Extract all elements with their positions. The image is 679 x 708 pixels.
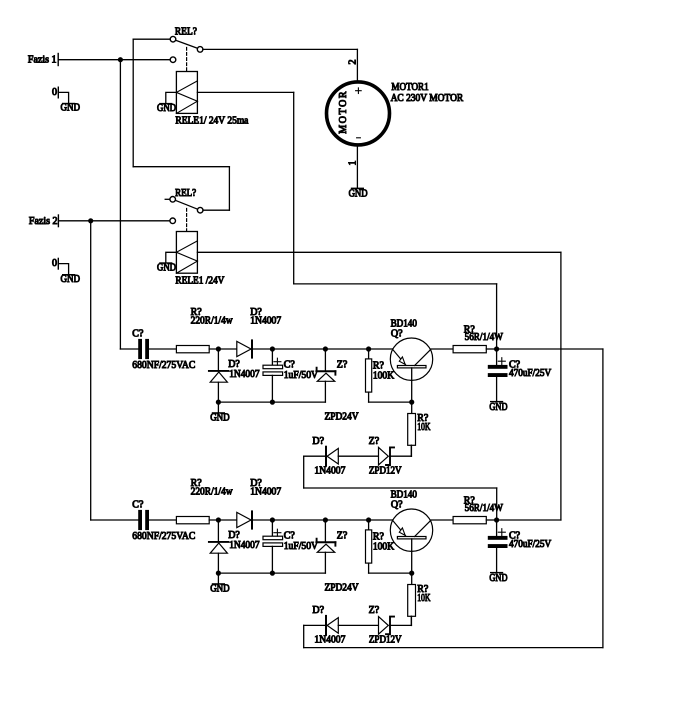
- zener Z? ZPD24V (block 1): [317, 349, 336, 402]
- pin 1 (motor bottom): [348, 161, 359, 166]
- wire zener to 10K (block 2): [390, 616, 411, 625]
- junction ground rail cap (block 2): [270, 571, 275, 576]
- svg-text:D?: D?: [312, 436, 324, 447]
- junction ground rail left (block 2): [216, 571, 221, 576]
- svg-text:1N4007: 1N4007: [314, 635, 345, 646]
- label D? (feedback diode, block 2): [312, 605, 324, 616]
- svg-text:220R/1/4w: 220R/1/4w: [191, 487, 234, 498]
- wire across to relay2 switch: [133, 166, 229, 168]
- svg-text:0: 0: [52, 258, 57, 269]
- wire cap to resistor (block 2): [149, 519, 176, 521]
- value label 1N4007 (shunt diode, block 1): [229, 369, 259, 380]
- value label 1N4007 (series diode, block 1): [250, 316, 281, 327]
- resistor R? 10K (block 1): [408, 402, 416, 456]
- svg-text:ZPD12V: ZPD12V: [369, 466, 402, 477]
- wire rail (block 1): [272, 348, 392, 350]
- svg-text:GND: GND: [157, 103, 176, 114]
- value label 10K (block 1): [417, 422, 431, 433]
- svg-text:RELE1/ 24V 25ma: RELE1/ 24V 25ma: [175, 115, 249, 126]
- wire block1 output to lower loop: [304, 349, 603, 648]
- junction resistor-diode node (block 2): [216, 517, 221, 522]
- wire rail (block 2): [272, 519, 392, 521]
- svg-text:GND: GND: [157, 262, 176, 273]
- ground GND (relay 1): [157, 103, 176, 114]
- resistor R? 10K (block 2): [408, 573, 416, 625]
- wire resistor to diode (block 2): [209, 519, 237, 521]
- power port 0 (upper): [52, 87, 58, 98]
- label C? (680NF cap, block 1): [132, 328, 144, 339]
- label Q? (block 2): [391, 500, 403, 511]
- wire Fazis 1 to relay contact: [58, 59, 170, 61]
- value label 680NF/275VAC (block 1): [132, 360, 195, 371]
- pin 2 (motor top): [347, 60, 358, 65]
- junction Fazis 1: [118, 57, 123, 62]
- svg-text:MOTOR1: MOTOR1: [391, 82, 428, 93]
- capacitor C? 470uF/25V (block 1): [488, 349, 508, 401]
- label R? (10K, block 1): [417, 413, 429, 424]
- label Z? (ZPD24V, block 2): [337, 530, 348, 541]
- label BD140 (block 2): [391, 490, 417, 501]
- svg-text:Fazis 2: Fazis 2: [29, 216, 58, 227]
- motor MOTOR1 AC 230V MOTOR: [327, 82, 390, 145]
- svg-text:GND: GND: [210, 584, 230, 595]
- zener Z? ZPD12V (block 1): [379, 447, 395, 465]
- label R? (100K, block 2): [373, 532, 385, 543]
- svg-text:10K: 10K: [417, 593, 431, 604]
- svg-text:C?: C?: [132, 328, 144, 339]
- junction diode output node (block 2): [270, 517, 275, 522]
- resistor R? 100K (block 2): [366, 520, 412, 573]
- junction output node (block 1): [494, 346, 499, 351]
- ground GND (lower left): [61, 274, 81, 285]
- svg-text:1uF/50V: 1uF/50V: [284, 541, 319, 552]
- wire resistor to output node (block 2): [486, 519, 496, 521]
- ground GND (motor): [349, 188, 368, 199]
- capacitor C? 680NF/275VAC (block 2): [138, 510, 149, 530]
- value label 470uF/25V (block 2): [509, 539, 552, 550]
- svg-text:220R/1/4w: 220R/1/4w: [191, 316, 234, 327]
- wire collector to output resistor (block 1): [431, 348, 453, 350]
- wire zener network left (block 1): [304, 456, 325, 488]
- wire resistor to diode (block 1): [209, 348, 237, 350]
- diode D? 1N4007 series (block 2): [237, 511, 252, 528]
- value label ZPD12V (block 1): [369, 466, 402, 477]
- transistor Q? BD140 (block 1): [390, 338, 432, 402]
- label C? (470uF cap, block 1): [509, 360, 521, 371]
- wire to ground (block 1): [217, 402, 219, 413]
- resistor R? 220R/1/4w (block 1): [176, 346, 209, 353]
- wire block1 zener network to block2 output: [304, 488, 497, 520]
- junction diode output node (block 1): [270, 346, 275, 351]
- wire relay1 coil to GND: [166, 92, 177, 103]
- svg-text:1N4007: 1N4007: [229, 540, 259, 551]
- value label 1N4007 (shunt diode, block 2): [229, 540, 259, 551]
- svg-text:ZPD24V: ZPD24V: [325, 582, 360, 593]
- value label RELE1 /24V: [175, 275, 225, 286]
- label R? (56R, block 2): [464, 496, 476, 507]
- wire 0 to GND (upper): [58, 92, 68, 103]
- value label ZPD24V (block 1): [325, 411, 360, 422]
- junction base node (block 1): [409, 400, 414, 405]
- svg-text:56R/1/4W: 56R/1/4W: [465, 503, 504, 514]
- capacitor C? 1uF/50V (block 1): [263, 349, 283, 402]
- value label 1uF/50V (block 1): [284, 370, 319, 381]
- svg-text:Z?: Z?: [337, 530, 348, 541]
- ground GND (block 1): [210, 413, 230, 424]
- value label RELE1/ 24V 25ma: [175, 115, 249, 126]
- ground GND (upper left): [61, 103, 81, 114]
- value label 100K (block 1): [373, 371, 395, 382]
- wire resistor to output node (block 1): [486, 348, 496, 350]
- svg-text:1uF/50V: 1uF/50V: [284, 370, 319, 381]
- wire relay1 coil feed: [197, 92, 496, 349]
- svg-text:REL?: REL?: [175, 26, 198, 37]
- junction Fazis 2: [88, 218, 93, 223]
- wire zener network left (block 2): [304, 625, 325, 647]
- ground GND (470uF cap, block 1): [489, 402, 507, 413]
- diode D? 1N4007 feedback (block 2): [326, 616, 338, 635]
- diode D? 1N4007 feedback (block 1): [326, 447, 338, 466]
- junction zener node (block 2): [323, 517, 328, 522]
- junction base node (block 2): [409, 571, 414, 576]
- label D? (series diode, block 2): [250, 478, 262, 489]
- wire 0 to GND (lower): [58, 264, 68, 275]
- resistor R? 100K (block 1): [366, 349, 412, 402]
- label AC 230V MOTOR: [391, 93, 464, 104]
- wire diode to zener (block 1): [338, 455, 378, 457]
- label C? (680NF cap, block 2): [132, 499, 144, 510]
- svg-text:GND: GND: [489, 573, 507, 584]
- value label 100K (block 2): [373, 542, 395, 553]
- value label 220R/1/4w (block 1): [191, 316, 234, 327]
- svg-text:470uF/25V: 470uF/25V: [509, 539, 552, 550]
- label R? (100K, block 1): [373, 361, 385, 372]
- relay contact REL? (upper): [170, 26, 203, 62]
- label C? (470uF cap, block 2): [509, 531, 521, 542]
- junction ground rail left (block 1): [216, 400, 221, 405]
- zener Z? ZPD24V (block 2): [317, 520, 336, 573]
- diode D? 1N4007 shunt (block 1): [209, 349, 229, 402]
- junction ground rail cap (block 1): [270, 400, 275, 405]
- svg-text:100K: 100K: [373, 542, 395, 553]
- label D? (shunt diode, block 2): [228, 530, 240, 541]
- label D? (series diode, block 1): [250, 307, 262, 318]
- wire block2 output to relay2 feed: [497, 519, 561, 521]
- junction 100K node (block 1): [366, 346, 371, 351]
- svg-text:ZPD24V: ZPD24V: [325, 411, 360, 422]
- label Q? (block 1): [391, 329, 403, 340]
- svg-text:GND: GND: [61, 274, 81, 285]
- port Fazis 1: [28, 54, 58, 66]
- svg-text:RELE1 /24V: RELE1 /24V: [175, 275, 225, 286]
- dashed actuation line relay 2: [186, 209, 188, 232]
- dashed actuation line relay 1: [186, 48, 188, 72]
- ground GND (relay 2): [157, 262, 176, 273]
- ground GND (block 2): [210, 584, 230, 595]
- label R? (56R, block 1): [464, 325, 476, 336]
- value label 10K (block 2): [417, 593, 431, 604]
- svg-text:GND: GND: [210, 413, 230, 424]
- junction output node (block 2): [494, 517, 499, 522]
- value label 1N4007 (series diode, block 2): [250, 487, 281, 498]
- label Z? (ZPD12V, block 2): [369, 605, 380, 616]
- wire to ground (block 2): [217, 573, 219, 584]
- wire Fazis 2 to relay contact: [58, 220, 170, 222]
- label C? (1uF cap, block 1): [284, 359, 296, 370]
- zener Z? ZPD12V (block 2): [379, 617, 395, 635]
- svg-text:470uF/25V: 470uF/25V: [509, 368, 552, 379]
- relay contact REL? (lower): [165, 188, 203, 223]
- wire down from relay1 common: [132, 39, 134, 167]
- wire relay1 switch output to motor: [203, 49, 358, 80]
- svg-text:2: 2: [347, 60, 358, 65]
- value label 1N4007 (feedback diode, block 1): [314, 466, 345, 477]
- svg-text:10K: 10K: [417, 422, 431, 433]
- label D? (shunt diode, block 1): [228, 359, 240, 370]
- label R? (220R, block 2): [191, 478, 203, 489]
- wire motor to ground: [356, 147, 358, 188]
- resistor R? 220R/1/4w (block 2): [176, 517, 209, 524]
- junction resistor-diode node (block 1): [216, 346, 221, 351]
- wire Fazis 1 down to block 1 input: [119, 60, 121, 349]
- wire ground rail (block 1): [218, 401, 325, 403]
- wire relay2 switch output: [203, 209, 229, 211]
- label R? (220R, block 1): [191, 307, 203, 318]
- label R? (10K, block 2): [417, 584, 429, 595]
- value label 680NF/275VAC (block 2): [132, 531, 195, 542]
- wire down to relay2 switch output: [228, 167, 230, 211]
- value label 470uF/25V (block 1): [509, 368, 552, 379]
- svg-text:100K: 100K: [373, 371, 395, 382]
- label D? (feedback diode, block 1): [312, 436, 324, 447]
- value label 56R/1/4W (block 2): [465, 503, 504, 514]
- wire relay1 common to left: [133, 38, 170, 40]
- wire diode to node (block 1): [253, 348, 272, 350]
- junction zener node (block 1): [323, 346, 328, 351]
- diode D? 1N4007 shunt (block 2): [209, 520, 229, 573]
- svg-text:MOTOR: MOTOR: [338, 90, 349, 134]
- value label ZPD24V (block 2): [325, 582, 360, 593]
- svg-text:Z?: Z?: [369, 436, 380, 447]
- port Fazis 2: [29, 215, 59, 227]
- svg-text:Q?: Q?: [391, 500, 403, 511]
- resistor R? 56R/1/4W (block 1): [453, 346, 486, 353]
- label BD140 (block 1): [391, 319, 417, 330]
- svg-text:1N4007: 1N4007: [314, 466, 345, 477]
- svg-text:1N4007: 1N4007: [229, 369, 259, 380]
- svg-text:1N4007: 1N4007: [250, 487, 281, 498]
- wire relay2 coil to GND: [166, 252, 177, 262]
- wire input to capacitor (block 1): [120, 348, 138, 350]
- transistor Q? BD140 (block 2): [390, 509, 432, 573]
- svg-text:GND: GND: [61, 103, 81, 114]
- svg-text:56R/1/4W: 56R/1/4W: [465, 332, 504, 343]
- svg-text:GND: GND: [489, 402, 507, 413]
- wire zener to 10K (block 1): [390, 445, 411, 456]
- value label 220R/1/4w (block 2): [191, 487, 234, 498]
- svg-text:Fazis 1: Fazis 1: [28, 54, 57, 65]
- resistor R? 56R/1/4W (block 2): [453, 517, 486, 524]
- value label 1uF/50V (block 2): [284, 541, 319, 552]
- svg-text:AC 230V MOTOR: AC 230V MOTOR: [391, 93, 464, 104]
- wire Fazis 2 down to block 2 input: [90, 221, 92, 520]
- svg-text:GND: GND: [349, 189, 368, 200]
- power port 0 (lower): [52, 258, 58, 269]
- capacitor C? 470uF/25V (block 2): [488, 520, 508, 572]
- wire ground rail (block 2): [218, 572, 325, 574]
- svg-text:680NF/275VAC: 680NF/275VAC: [132, 531, 195, 542]
- svg-text:ZPD12V: ZPD12V: [369, 635, 402, 646]
- wire input to capacitor (block 2): [91, 519, 139, 521]
- value label 56R/1/4W (block 1): [465, 332, 504, 343]
- capacitor C? 680NF/275VAC (block 1): [138, 339, 149, 359]
- svg-text:Z?: Z?: [337, 359, 348, 370]
- junction 100K node (block 2): [366, 517, 371, 522]
- svg-text:Z?: Z?: [369, 605, 380, 616]
- label MOTOR1: [391, 82, 428, 93]
- svg-text:C?: C?: [284, 359, 296, 370]
- svg-text:C?: C?: [284, 530, 296, 541]
- svg-text:C?: C?: [132, 499, 144, 510]
- wire collector to output resistor (block 2): [431, 519, 453, 521]
- svg-text:REL?: REL?: [175, 188, 197, 199]
- capacitor C? 1uF/50V (block 2): [263, 520, 283, 573]
- value label 1N4007 (feedback diode, block 2): [314, 635, 345, 646]
- svg-text:Q?: Q?: [391, 329, 403, 340]
- wire relay2 coil feed: [197, 252, 561, 520]
- label Z? (ZPD24V, block 1): [337, 359, 348, 370]
- svg-text:0: 0: [52, 87, 57, 98]
- wire diode to zener (block 2): [338, 624, 378, 626]
- svg-text:1N4007: 1N4007: [250, 316, 281, 327]
- svg-text:D?: D?: [312, 605, 324, 616]
- value label ZPD12V (block 2): [369, 635, 402, 646]
- label C? (1uF cap, block 2): [284, 530, 296, 541]
- relay coil RELE1 /24V: [176, 232, 197, 274]
- wire diode to node (block 2): [253, 519, 272, 521]
- diode D? 1N4007 series (block 1): [237, 340, 252, 357]
- svg-text:680NF/275VAC: 680NF/275VAC: [132, 360, 195, 371]
- label Z? (ZPD12V, block 1): [369, 436, 380, 447]
- relay coil RELE1/ 24V 25ma: [176, 72, 197, 114]
- wire cap to resistor (block 1): [149, 348, 176, 350]
- ground GND (470uF cap, block 2): [489, 573, 507, 584]
